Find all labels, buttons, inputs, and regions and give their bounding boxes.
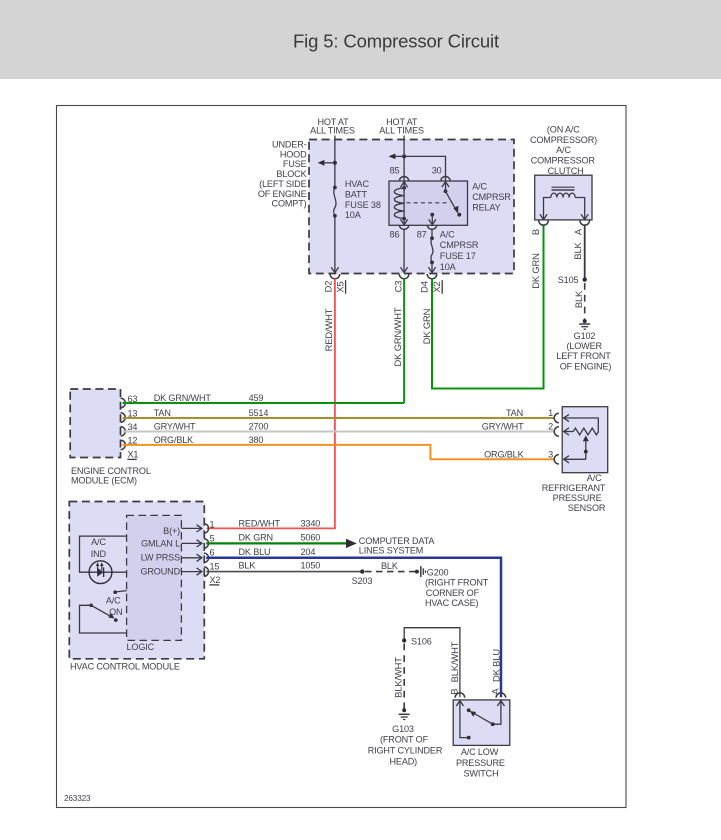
clutch core lines xyxy=(552,187,575,190)
label: A/C CMPRSR FUSE 17 10A xyxy=(440,229,479,271)
engine control module box xyxy=(70,389,120,458)
svg-text:A/C: A/C xyxy=(440,229,455,239)
svg-text:3340: 3340 xyxy=(301,518,321,528)
relay coil xyxy=(394,186,406,221)
pin B connector arc xyxy=(539,220,549,225)
wire label DK GRN/WHT 459 xyxy=(154,393,264,403)
wire: LED branch loop to logic xyxy=(80,536,127,572)
svg-text:GROUND: GROUND xyxy=(140,567,180,577)
switch pin B connector arc xyxy=(455,693,465,698)
svg-text:A/C: A/C xyxy=(587,473,602,483)
svg-text:RED/WHT: RED/WHT xyxy=(323,308,334,351)
label: A/C LOW PRESSURE SWITCH xyxy=(456,747,505,779)
svg-text:ON: ON xyxy=(109,607,122,617)
node junction on fuse 38 feed xyxy=(333,161,337,165)
svg-text:G102: G102 xyxy=(574,331,596,341)
svg-text:HEAD): HEAD) xyxy=(390,756,418,766)
svg-text:MODULE (ECM): MODULE (ECM) xyxy=(71,476,137,486)
compressor clutch coil body xyxy=(535,175,592,220)
svg-text:HVAC CASE): HVAC CASE) xyxy=(425,598,479,608)
svg-text:G200: G200 xyxy=(427,567,449,577)
svg-text:COMPT): COMPT) xyxy=(272,199,307,209)
svg-text:(RIGHT FRONT: (RIGHT FRONT xyxy=(425,578,489,588)
node S203 xyxy=(352,569,373,586)
svg-text:5514: 5514 xyxy=(249,408,269,418)
pin 87 connector arc xyxy=(427,226,436,230)
svg-text:X5: X5 xyxy=(335,281,346,292)
svg-text:(FRONT OF: (FRONT OF xyxy=(380,735,429,745)
svg-text:DK GRN: DK GRN xyxy=(530,253,541,289)
node S106 xyxy=(402,636,432,646)
svg-text:G103: G103 xyxy=(392,724,414,734)
svg-text:1: 1 xyxy=(210,519,215,529)
ECM pin 12 connector arc xyxy=(121,440,126,449)
svg-text:COMPRESSOR): COMPRESSOR) xyxy=(530,135,597,145)
svg-text:204: 204 xyxy=(301,547,316,557)
wire DK GRN/WHT: C3 down to ECM row 63 xyxy=(403,279,405,403)
label: A/C IND xyxy=(91,537,107,559)
wire ORG/BLK 380: ECM 12 stepped to sensor pin 3 xyxy=(123,445,555,459)
pin 86 connector arc xyxy=(399,226,408,230)
ECM pin 13 connector arc xyxy=(121,413,126,422)
logic pin labels xyxy=(140,526,180,577)
pin X1 label (underlined) xyxy=(127,450,138,460)
computer data lines arrow xyxy=(346,539,357,548)
svg-text:BLK/WHT: BLK/WHT xyxy=(449,641,460,682)
node S105 xyxy=(558,275,587,285)
pin 85 connector arc xyxy=(399,176,408,180)
svg-text:RIGHT CYLINDER: RIGHT CYLINDER xyxy=(368,746,443,756)
wire: switch pivot loop to logic xyxy=(80,605,127,633)
svg-text:86: 86 xyxy=(390,229,400,239)
logic module box xyxy=(127,515,182,640)
svg-text:6: 6 xyxy=(210,548,215,558)
svg-text:HVAC: HVAC xyxy=(345,179,370,189)
wire: coil right lead to pin A with down arrow xyxy=(575,198,588,220)
relay switch contact to pin 87 arrow xyxy=(429,213,436,225)
wire DK GRN/WHT 459: ECM 63 to C3 riser xyxy=(123,402,405,404)
svg-text:BLK: BLK xyxy=(572,241,583,259)
svg-text:GRY/WHT: GRY/WHT xyxy=(482,422,524,432)
svg-text:LOGIC: LOGIC xyxy=(127,642,155,652)
sensor pin 3 arrow and wire to wiper xyxy=(564,456,586,463)
sensor pin 3 connector arc xyxy=(554,455,559,464)
svg-text:C3: C3 xyxy=(392,281,403,293)
svg-text:REFRIGERANT: REFRIGERANT xyxy=(542,483,606,493)
wire DK GRN: X2 down, over and up to clutch pin B xyxy=(432,224,544,388)
indicator lamp A/C IND (LED) xyxy=(89,561,112,584)
sensor pin 1 connector arc xyxy=(554,413,559,422)
svg-text:DK BLU: DK BLU xyxy=(490,649,501,682)
svg-text:LINES SYSTEM: LINES SYSTEM xyxy=(359,546,423,556)
svg-text:ENGINE CONTROL: ENGINE CONTROL xyxy=(71,466,151,476)
HVAC control module box xyxy=(69,502,204,659)
svg-text:15: 15 xyxy=(210,562,220,572)
svg-text:ORG/BLK: ORG/BLK xyxy=(154,435,193,445)
svg-text:B: B xyxy=(530,229,541,235)
pin label X2 (underlined) xyxy=(431,280,442,294)
svg-text:S203: S203 xyxy=(352,576,373,586)
wire: relay pin 86 to C3 with down arrow xyxy=(401,230,408,273)
svg-text:RED/WHT: RED/WHT xyxy=(239,518,281,528)
connector arc X5 at fuse block bottom xyxy=(330,274,340,279)
svg-text:DK GRN/WHT: DK GRN/WHT xyxy=(392,307,403,366)
svg-text:85: 85 xyxy=(390,166,400,176)
svg-text:HOOD: HOOD xyxy=(280,150,307,160)
wire label DK BLU 204 xyxy=(239,547,316,557)
ground G103 xyxy=(399,708,410,719)
svg-text:PRESSURE: PRESSURE xyxy=(553,493,602,503)
svg-text:OF ENGINE: OF ENGINE xyxy=(258,189,307,199)
svg-text:CMPRSR: CMPRSR xyxy=(440,240,479,250)
svg-text:S106: S106 xyxy=(411,636,432,646)
wire RED/WHT: X5 down to HVAC row 1 xyxy=(207,279,335,529)
wire label GRY/WHT 2700 xyxy=(154,422,269,432)
svg-text:2: 2 xyxy=(548,422,553,432)
label: HOT AT ALL TIMES (left) xyxy=(310,117,355,135)
svg-text:5060: 5060 xyxy=(301,532,321,542)
label: ENGINE CONTROL MODULE (ECM) xyxy=(71,466,151,486)
sensor wiper arrow xyxy=(583,435,589,459)
pin 30 connector arc xyxy=(441,176,450,180)
svg-text:10A: 10A xyxy=(345,210,362,220)
svg-text:LW PRSS: LW PRSS xyxy=(141,553,180,563)
relay coil to pin 86 arrow xyxy=(401,219,408,225)
svg-text:D4: D4 xyxy=(419,281,430,293)
A/C refrigerant pressure sensor body xyxy=(562,407,608,473)
svg-text:S105: S105 xyxy=(558,275,579,285)
header band xyxy=(0,0,721,79)
svg-text:OF ENGINE): OF ENGINE) xyxy=(560,361,612,371)
svg-text:A: A xyxy=(573,228,584,235)
svg-text:CORNER OF: CORNER OF xyxy=(426,588,480,598)
wire BLK 1050: pin 15 to S203 xyxy=(206,571,362,573)
switch pin B arrow and wire to fixed contact xyxy=(456,701,470,740)
svg-text:380: 380 xyxy=(249,435,264,445)
label: A/C ON xyxy=(106,596,123,617)
relay internal dashed link xyxy=(407,202,449,204)
sensor resistor xyxy=(564,428,599,435)
label: A/C REFRIGERANT PRESSURE SENSOR xyxy=(542,473,606,513)
wire: feed into HVAC BATT fuse xyxy=(334,136,336,188)
svg-text:SWITCH: SWITCH xyxy=(464,769,499,779)
svg-text:1050: 1050 xyxy=(301,561,321,571)
fuse F38 (HVAC BATT FUSE 38 10A) xyxy=(333,186,337,218)
wire label DK GRN 5060 xyxy=(239,532,321,542)
svg-text:B(+): B(+) xyxy=(163,526,180,536)
wire label ORG/BLK 380 xyxy=(154,435,264,445)
wire BLK/WHT: switch pin B up and over to S106 xyxy=(404,628,460,698)
connector arc X2 at fuse block bottom xyxy=(427,274,437,279)
pin X2 label (underlined) xyxy=(209,575,220,585)
svg-text:BLK: BLK xyxy=(381,561,398,571)
HVAC pin 15 arrow and arc xyxy=(181,562,219,577)
svg-text:SENSOR: SENSOR xyxy=(568,503,606,513)
svg-text:2700: 2700 xyxy=(249,422,269,432)
svg-text:BATT: BATT xyxy=(345,189,368,199)
svg-text:5: 5 xyxy=(210,533,215,543)
svg-text:CLUTCH: CLUTCH xyxy=(548,166,584,176)
wire BLK/WHT dashed: S106 to G103 xyxy=(403,644,405,709)
svg-text:3: 3 xyxy=(548,449,553,459)
svg-text:D2: D2 xyxy=(323,281,334,293)
svg-text:10A: 10A xyxy=(440,262,457,272)
svg-text:ORG/BLK: ORG/BLK xyxy=(484,449,523,459)
svg-text:FUSE: FUSE xyxy=(283,159,307,169)
wire: fuse 38 to D2 pin with down arrow xyxy=(331,216,338,273)
svg-text:RELAY: RELAY xyxy=(472,202,500,212)
svg-text:X2: X2 xyxy=(210,575,221,585)
wire BLK: clutch pin A to S105 xyxy=(584,224,586,279)
wire: coil left lead to pin B with down arrow xyxy=(540,198,551,220)
relay K (A/C CMPRSR RELAY) body xyxy=(389,181,468,225)
svg-text:A/C: A/C xyxy=(91,537,106,547)
svg-text:FUSE 17: FUSE 17 xyxy=(440,251,476,261)
label: COMPUTER DATA LINES SYSTEM xyxy=(359,536,436,555)
svg-text:CMPRSR: CMPRSR xyxy=(472,192,511,202)
sensor pin 2 arrow xyxy=(564,428,569,435)
pin label X5 (underlined) xyxy=(335,280,346,294)
ECM pin 34 connector arc xyxy=(121,427,126,436)
label: (ON A/C COMPRESSOR) A/C COMPRESSOR CLUTCH xyxy=(530,125,597,176)
underhood fuse block box xyxy=(309,140,514,274)
svg-text:13: 13 xyxy=(128,408,138,418)
fuse F17 (A/C CMPRSR FUSE 17 10A) xyxy=(430,230,434,265)
svg-text:UNDER-: UNDER- xyxy=(272,140,307,150)
HVAC pin 5 arrow and arc xyxy=(181,533,214,548)
wire DK GRN 5060: pin 5 to data link arrow xyxy=(206,542,346,544)
wire: branch to other circuits (left arrow) xyxy=(323,162,335,164)
svg-text:TAN: TAN xyxy=(506,408,523,418)
svg-text:GMLAN L: GMLAN L xyxy=(141,539,180,549)
relay switch arm from pin 30 xyxy=(442,182,461,217)
wire label BLK 1050 xyxy=(239,561,321,571)
ECM pin 63 connector arc xyxy=(121,398,126,407)
svg-text:A/C LOW: A/C LOW xyxy=(461,747,499,757)
clutch coil winding xyxy=(551,193,575,197)
switch pin A arrow and arm xyxy=(467,701,505,726)
svg-text:Fig 5: Compressor Circuit: Fig 5: Compressor Circuit xyxy=(293,31,499,52)
label: HOT AT ALL TIMES (right) xyxy=(379,117,424,135)
pin A connector arc xyxy=(580,220,590,225)
svg-text:(LEFT SIDE: (LEFT SIDE xyxy=(259,179,306,189)
svg-text:COMPRESSOR: COMPRESSOR xyxy=(531,156,596,166)
svg-text:(ON A/C: (ON A/C xyxy=(547,125,580,135)
svg-text:BLK: BLK xyxy=(573,290,584,308)
svg-text:A/C: A/C xyxy=(556,145,571,155)
wire label RED/WHT 3340 xyxy=(239,518,321,528)
svg-text:PRESSURE: PRESSURE xyxy=(456,758,505,768)
sensor pin 2 connector arc xyxy=(554,427,559,436)
ground G200 (chassis) xyxy=(415,566,426,577)
wire TAN 5514: ECM 13 to sensor pin 1 xyxy=(123,417,555,419)
wire DK BLU 204: pin 6 over and down to switch pin A xyxy=(206,558,501,698)
node junction above relay xyxy=(402,154,406,158)
svg-text:FUSE 38: FUSE 38 xyxy=(345,200,381,210)
svg-text:HVAC CONTROL MODULE: HVAC CONTROL MODULE xyxy=(70,661,180,671)
HVAC pin 6 arrow and arc xyxy=(181,548,214,563)
svg-text:IND: IND xyxy=(91,549,107,559)
svg-text:BLOCK: BLOCK xyxy=(276,169,306,179)
switch pin A connector arc xyxy=(496,693,506,698)
svg-text:GRY/WHT: GRY/WHT xyxy=(154,422,196,432)
svg-text:DK GRN: DK GRN xyxy=(239,532,273,542)
svg-text:X1: X1 xyxy=(128,450,139,460)
switch A/C ON arm xyxy=(89,604,117,622)
svg-text:A/C: A/C xyxy=(106,596,121,606)
label: G102 (LOWER LEFT FRONT OF ENGINE) xyxy=(556,331,611,372)
wire: fuse 17 to D4 with down arrow xyxy=(428,262,435,272)
svg-text:DK BLU: DK BLU xyxy=(239,547,271,557)
A/C low pressure switch body xyxy=(453,700,510,746)
svg-text:263323: 263323 xyxy=(64,794,91,803)
wire: branch over to relay pin 30 xyxy=(404,156,445,180)
wire label TAN 5514 xyxy=(154,408,269,418)
connector arc C3 at fuse block bottom xyxy=(399,274,409,279)
wire BLK dashed: S105 to G102 xyxy=(584,283,586,320)
svg-text:BLK: BLK xyxy=(239,561,256,571)
svg-text:DK GRN/WHT: DK GRN/WHT xyxy=(154,393,212,403)
wire GRY/WHT 2700: ECM 34 to sensor pin 2 xyxy=(123,431,555,433)
label: UNDER-HOOD FUSE BLOCK (LEFT SIDE OF ENGINE COMPT) xyxy=(258,140,307,209)
svg-text:ALL TIMES: ALL TIMES xyxy=(379,125,424,135)
svg-text:459: 459 xyxy=(249,393,264,403)
svg-text:30: 30 xyxy=(432,166,442,176)
svg-text:87: 87 xyxy=(417,229,427,239)
svg-text:DK GRN: DK GRN xyxy=(421,309,432,345)
label: A/C CMPRSR RELAY xyxy=(472,182,511,213)
svg-text:ALL TIMES: ALL TIMES xyxy=(310,125,355,135)
wire: branch to other circuits (left arrow) xyxy=(394,155,405,157)
svg-text:1: 1 xyxy=(548,408,553,418)
switch A/C ON upper contact xyxy=(113,590,126,594)
svg-text:A/C: A/C xyxy=(472,182,487,192)
label: HVAC BATT FUSE 38 10A xyxy=(345,179,381,220)
wire BLK dashed: S203 to G200 xyxy=(365,571,415,573)
label: G200 (RIGHT FRONT CORNER OF HVAC CASE) xyxy=(425,567,489,608)
sensor pin 1 arrow and wire to resistor top xyxy=(564,414,599,431)
svg-text:(LOWER: (LOWER xyxy=(566,341,602,351)
relay coil terminal arrow (pin 85) xyxy=(401,182,408,188)
label: G103 (FRONT OF RIGHT CYLINDER HEAD) xyxy=(368,724,443,766)
svg-text:BLK/WHT: BLK/WHT xyxy=(392,657,403,698)
HVAC pin 1 arrow and arc xyxy=(181,519,214,533)
svg-text:LEFT FRONT: LEFT FRONT xyxy=(556,351,611,361)
ground G102 xyxy=(579,319,590,329)
wire: feed to relay pin 85 xyxy=(403,136,405,181)
svg-text:TAN: TAN xyxy=(154,408,171,418)
